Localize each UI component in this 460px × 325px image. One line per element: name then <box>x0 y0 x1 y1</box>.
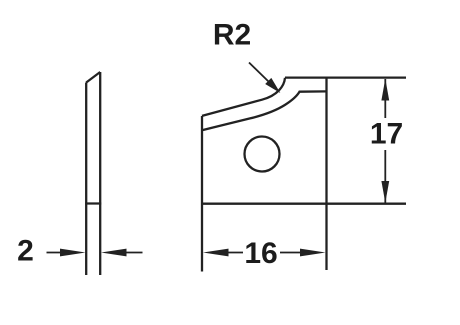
dim 17 top arrowhead <box>381 79 389 101</box>
svg-text:16: 16 <box>244 237 277 270</box>
dim 16 left arrowhead <box>203 249 229 257</box>
dim 17 lower segment <box>384 150 386 203</box>
front view top edge + 17 extension line <box>285 76 406 78</box>
dim 2 left arrow tail <box>47 252 65 254</box>
svg-text:R2: R2 <box>213 18 251 51</box>
mounting hole <box>245 137 280 172</box>
cutting edge lower (land) line <box>202 91 327 130</box>
cutting edge upper outline with R2 corner <box>202 78 285 116</box>
svg-text:2: 2 <box>17 235 34 268</box>
side view right edge <box>99 72 101 275</box>
R2 leader arrowhead <box>265 78 280 93</box>
dim 16 right tail <box>280 252 304 254</box>
front view right edge <box>325 78 327 270</box>
side view left edge <box>85 83 87 276</box>
dim 2 right arrow tail <box>124 252 143 254</box>
dim 17 bottom arrowhead <box>381 181 389 203</box>
side view bottom edge <box>85 202 101 204</box>
dim 16 right arrowhead <box>300 249 326 257</box>
dim 2 left arrowhead <box>60 249 86 257</box>
svg-text:17: 17 <box>370 118 403 151</box>
front view bottom edge + 17 extension line <box>202 203 406 205</box>
R2 leader line <box>249 63 269 82</box>
side view top bevel <box>86 72 100 83</box>
front view left edge <box>201 116 203 272</box>
dim 2 right arrowhead <box>101 249 127 257</box>
dim 16 left tail <box>225 252 243 254</box>
dim 17 upper segment <box>384 79 386 118</box>
